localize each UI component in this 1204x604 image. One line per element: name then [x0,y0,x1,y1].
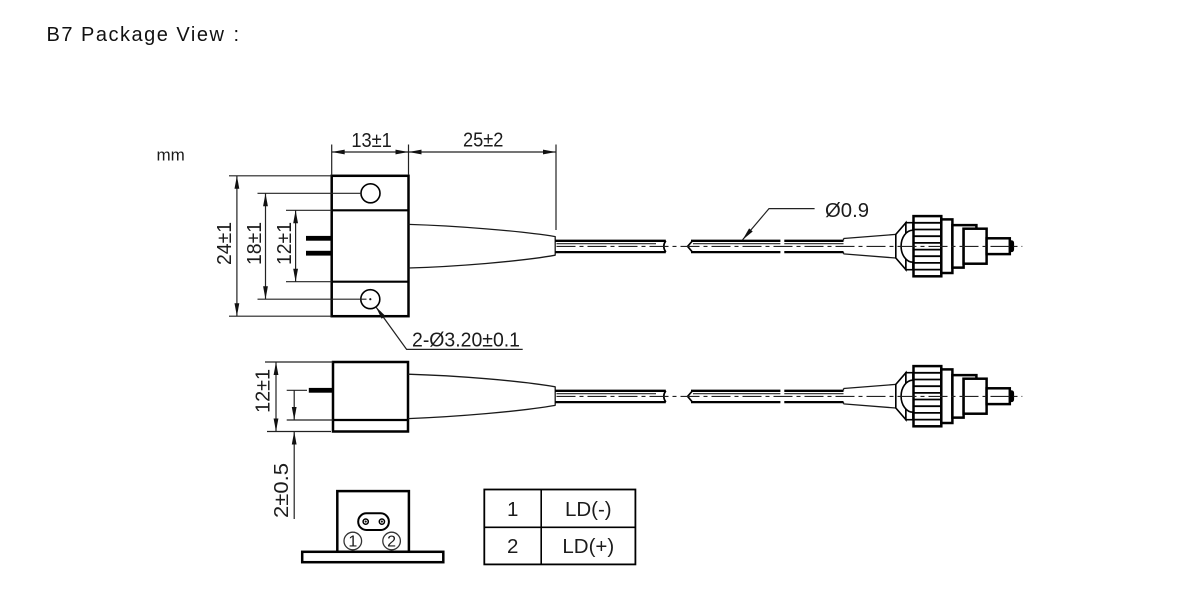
top view package body [332,176,409,316]
pin table [484,490,635,565]
fiber cable segment 1 [555,240,666,242]
connector dome [901,380,913,412]
connector collar [906,223,913,270]
extension lines left dims [229,175,332,177]
front view body [337,491,409,552]
side view package body [333,362,408,432]
connector boot [844,234,896,258]
ferrule [987,388,1010,404]
svg-text:2: 2 [507,535,518,558]
extension lines 13/25 dim [331,145,333,176]
svg-text:1: 1 [507,498,518,521]
connector key body [952,375,976,418]
ferrule [987,238,1010,254]
cable break (concave) [664,391,666,402]
circled number 1 [344,532,362,550]
svg-text:2-Ø3.20±0.1: 2-Ø3.20±0.1 [412,329,520,352]
fiber cable segment 2 [691,240,780,242]
mounting hole bottom [361,290,380,309]
connector collar [906,373,913,420]
connector dome [901,230,913,262]
fiber cable segment 3 [784,240,843,242]
centreline (side view) [557,395,1023,397]
pin (side view) [309,388,333,393]
cable break (concave) [664,241,666,252]
side view base step line [333,419,408,421]
dimension 25±2 [409,151,557,153]
svg-text::: : [234,24,241,46]
dimension 18±1 [265,193,267,299]
ferrule tip [1010,390,1014,402]
leader Ø0.9 [743,209,815,240]
dimension 12±1 [295,210,297,281]
pin 1 (top view) [306,236,332,241]
svg-text:12±1: 12±1 [273,222,296,265]
circled number 2 [383,532,401,550]
svg-text:13±1: 13±1 [351,129,392,152]
svg-text:2±0.5: 2±0.5 [270,463,293,518]
pin 2 (front) [379,519,384,524]
cable break (point) [688,241,693,252]
connector rear body [941,369,952,423]
dimension 2±0.5 [293,390,295,420]
fiber cable segment 1 [555,390,666,392]
connector flare [896,223,906,270]
svg-text:2: 2 [387,534,396,551]
connector flare [896,373,906,420]
centreline (top view) [557,245,1023,247]
connector front body [964,229,987,264]
connector rear body [941,219,952,273]
extension lines side dims [265,361,333,363]
dimension 12±1 (side) [275,362,277,432]
cable break (point) [688,391,693,402]
svg-text:1: 1 [348,534,357,551]
connector key body [952,225,976,268]
top view flange step lines [332,209,409,211]
pin 2 (top view) [306,251,332,256]
strain relief boot (side view) [408,374,555,418]
svg-text:mm: mm [157,145,185,164]
pin 1 (front) [363,519,368,524]
svg-text:18±1: 18±1 [243,222,266,265]
knurled nut [914,366,942,426]
fiber cable segment 3 [784,390,843,392]
svg-text:LD(+): LD(+) [562,535,614,558]
svg-text:B7 Package View: B7 Package View [47,24,226,46]
dimension 13±1 [332,151,409,153]
front view base flange [302,552,443,562]
knurled nut [914,216,942,276]
leader 2-Ø3.20±0.1 [376,307,523,350]
svg-text:LD(-): LD(-) [565,498,612,521]
pin slot oval [358,513,389,530]
connector front body [964,379,987,414]
mounting hole top [361,184,380,203]
connector boot [844,384,896,408]
svg-text:Ø0.9: Ø0.9 [825,199,869,222]
svg-text:24±1: 24±1 [213,222,236,265]
fiber cable segment 2 [691,390,780,392]
svg-text:25±2: 25±2 [463,129,504,152]
ferrule tip [1010,240,1014,252]
svg-text:12±1: 12±1 [252,369,275,413]
dimension 24±1 [236,176,238,316]
strain relief boot (top view) [409,224,556,268]
